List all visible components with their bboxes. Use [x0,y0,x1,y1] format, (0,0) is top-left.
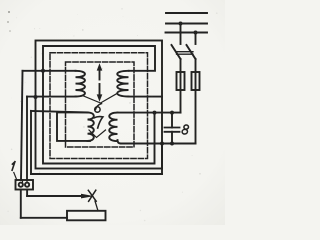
bus line L1 [166,12,207,14]
fuse F2 link wire [195,72,197,90]
label 8 [182,125,189,135]
coil 7 left loop [57,112,90,140]
node dot on L3 [194,31,198,35]
dashed screen R3 [50,53,148,159]
wire coil6-left top to plug [21,71,23,180]
node line lower (coil7 right bottom to fuse2) [121,143,196,145]
electrode arrowhead [81,194,94,199]
bus line L3 [166,32,208,34]
wire blade to fuse right [195,59,197,72]
node dot on L2 [179,22,183,26]
coil 6 right bottom wire to R1 [129,96,163,98]
junction dot node/R2 [153,111,157,115]
plug box 1 [16,180,34,190]
capacitor C8 plates [165,128,180,132]
wire node-left down [30,111,32,174]
electrode wire [27,195,86,197]
coil 6 left bottom wire [27,96,76,98]
bus line L2 [166,23,207,25]
wire to workpiece circuit [31,173,162,175]
wire bottom to workpiece [21,217,67,219]
coil 7 right bottom bend [118,140,122,143]
node line left (to coil 7 left top) [31,111,88,113]
junction dot lower node / R1 right [160,142,164,146]
node line upper (coil7 right top to fuse1) [118,112,181,114]
wire fuse1 down to node line [180,90,182,113]
fuse F1 [177,72,185,90]
label 6 [95,104,102,113]
capacitor C8 bottom lead [171,132,173,144]
wire plug into contacts [23,180,28,183]
capacitor C8 top lead [171,113,173,128]
spark to workpiece [95,201,98,211]
coil 6 right [117,71,128,97]
junction dot node/capacitor [170,111,174,115]
plug contact left [19,183,23,187]
label 7 [94,117,103,128]
scan speck 3 [9,30,11,32]
coil 6 left top wire [23,70,76,72]
coil 6 left [76,71,85,97]
scan speck 2 [7,21,9,23]
wire plug right contact down [26,190,28,197]
scan specks [73,35,74,36]
paper background [0,0,225,225]
workpiece plate [67,211,106,221]
switch tie bar [177,52,194,55]
fuse F1 link wire [180,72,182,90]
wire fuse2 down to lower node line [195,90,197,144]
movable coupling arrow up [99,70,101,80]
label 7 leader [89,130,106,138]
label 6 leader [83,94,118,104]
switch blade right [187,45,196,59]
spark cross [88,190,96,201]
junction dot R2 left [41,69,45,73]
dashed inner box R4 [66,62,135,147]
loop R2 (C-shaped turn) [43,46,155,164]
wire stub from L3 [195,33,197,45]
coil 7 right [109,113,117,141]
wire blade to fuse left [180,59,182,72]
label 1 leader [14,173,17,181]
outer loop R1 [36,41,163,169]
junction dot lower node / capacitor [170,142,174,146]
wire coil6-left bottom to plug [26,97,28,180]
switch blade left [172,45,181,59]
fuse F2 [192,72,200,90]
plug contact right [25,183,29,187]
junction dot R1 left [34,95,38,99]
movable coupling arrow down [99,84,101,95]
wire plug left contact down [20,190,22,218]
wire R1 corner down to workpiece wire [161,144,163,175]
label 1 [12,162,15,171]
scan speck 1 [8,11,10,13]
wire stub from L2 [180,24,182,45]
coil 7 left [88,112,94,140]
